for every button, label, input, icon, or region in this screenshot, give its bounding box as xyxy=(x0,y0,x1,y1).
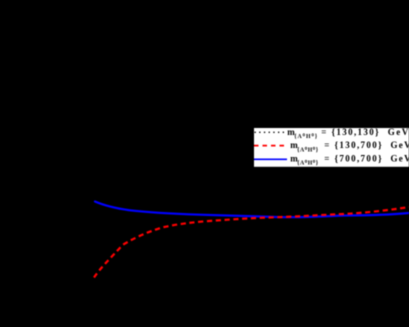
svg-text:{130,130}: {130,130} xyxy=(332,127,381,137)
svg-text:{700,700}: {700,700} xyxy=(335,154,384,164)
svg-text:GeV: GeV xyxy=(391,140,409,150)
svg-text:{A⁰H⁰}: {A⁰H⁰} xyxy=(297,146,319,153)
svg-text:{A⁰H⁰}: {A⁰H⁰} xyxy=(297,160,319,167)
curve: m={130,700} GeV (red dashed) xyxy=(94,207,409,278)
legend sample: red dashed line xyxy=(254,145,287,147)
curve: m={700,700} GeV (blue solid) xyxy=(95,202,409,218)
legend label 1: m_{A0H0}={130,130} GeV xyxy=(287,127,409,140)
svg-text:=: = xyxy=(324,154,329,164)
legend box xyxy=(254,128,409,168)
legend sample: black dotted line xyxy=(255,131,286,133)
svg-text:{A⁰H⁰}: {A⁰H⁰} xyxy=(294,133,318,140)
svg-text:GeV: GeV xyxy=(391,154,409,164)
svg-text:GeV: GeV xyxy=(388,127,409,137)
legend label 2: m_{A0H0}={130,700} GeV xyxy=(290,140,409,153)
legend label 3: m_{A0H0}={700,700} GeV xyxy=(290,154,409,167)
svg-text:{130,700}: {130,700} xyxy=(335,140,384,150)
svg-text:=: = xyxy=(321,127,326,137)
svg-text:=: = xyxy=(324,140,329,150)
legend sample: blue solid line xyxy=(254,158,287,160)
